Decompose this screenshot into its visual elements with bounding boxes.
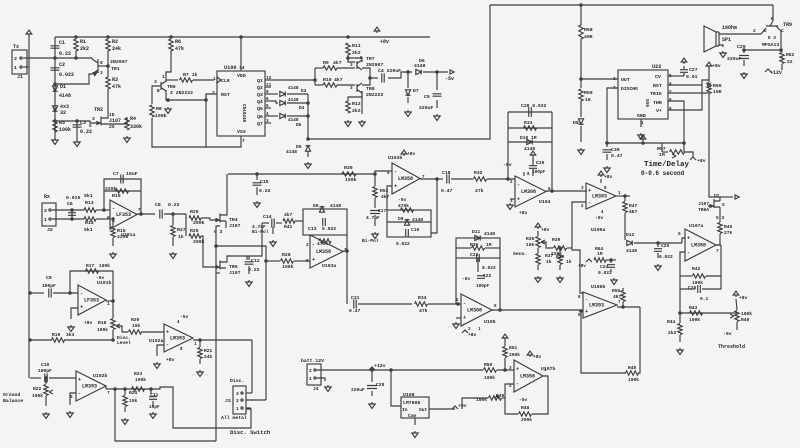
svg-text:10k: 10k <box>526 242 535 248</box>
svg-text:U22: U22 <box>652 64 661 70</box>
svg-text:1: 1 <box>107 302 110 307</box>
svg-text:-5v: -5v <box>96 275 105 281</box>
svg-text:1: 1 <box>213 76 216 82</box>
svg-text:R9: R9 <box>323 60 329 66</box>
svg-text:-5v: -5v <box>462 276 471 282</box>
svg-text:12: 12 <box>266 76 272 81</box>
svg-text:4148: 4148 <box>288 86 299 91</box>
svg-text:47k: 47k <box>175 46 184 52</box>
svg-text:R25: R25 <box>190 228 199 234</box>
svg-text:4148: 4148 <box>626 248 637 254</box>
svg-text:1: 1 <box>309 376 312 382</box>
svg-text:Level: Level <box>117 340 131 346</box>
svg-text:R35: R35 <box>470 242 479 248</box>
svg-text:2: 2 <box>44 208 47 214</box>
svg-text:U107a: U107a <box>689 223 704 229</box>
svg-text:MPSA13: MPSA13 <box>762 42 779 48</box>
svg-text:R42: R42 <box>692 266 701 272</box>
svg-text:3: 3 <box>92 116 95 122</box>
svg-text:U103a: U103a <box>322 263 337 269</box>
svg-text:4k7: 4k7 <box>333 60 342 66</box>
svg-text:4148: 4148 <box>59 93 71 99</box>
svg-text:6: 6 <box>266 97 269 102</box>
svg-text:16Ohm: 16Ohm <box>722 25 737 31</box>
svg-text:+: + <box>463 315 466 321</box>
svg-text:1M: 1M <box>659 152 665 158</box>
svg-text:1K: 1K <box>585 97 591 103</box>
svg-text:R3: R3 <box>112 77 118 83</box>
svg-text:1M: 1M <box>486 242 492 248</box>
svg-text:47k: 47k <box>419 308 428 314</box>
svg-text:220uF: 220uF <box>351 387 365 393</box>
svg-text:J2: J2 <box>47 227 53 233</box>
svg-text:LM393: LM393 <box>82 384 97 390</box>
svg-text:U106b: U106b <box>591 284 606 290</box>
svg-text:Q4: Q4 <box>257 99 263 105</box>
svg-text:-5v: -5v <box>723 331 732 337</box>
svg-text:R44: R44 <box>667 319 676 325</box>
svg-text:C6: C6 <box>67 201 73 207</box>
svg-text:D12: D12 <box>626 232 635 238</box>
svg-text:R18: R18 <box>98 320 107 326</box>
svg-text:+8v: +8v <box>407 151 416 157</box>
svg-text:R7 1k: R7 1k <box>183 72 198 78</box>
svg-text:R4: R4 <box>130 116 136 122</box>
svg-text:+12v: +12v <box>770 70 782 76</box>
svg-text:C16: C16 <box>411 227 420 233</box>
svg-text:C28: C28 <box>376 382 385 388</box>
svg-text:Q7: Q7 <box>257 121 263 127</box>
svg-text:100k: 100k <box>99 263 110 269</box>
svg-text:220k: 220k <box>117 234 129 240</box>
svg-text:9: 9 <box>266 90 269 95</box>
svg-text:J107: J107 <box>109 118 121 124</box>
svg-text:-5v: -5v <box>398 197 407 203</box>
svg-text:200k: 200k <box>509 352 520 358</box>
svg-text:R47: R47 <box>629 203 638 209</box>
svg-text:2: 2 <box>212 90 215 96</box>
svg-text:D4: D4 <box>299 106 305 111</box>
svg-text:4K7: 4K7 <box>629 209 638 215</box>
svg-text:TR1: TR1 <box>111 66 120 72</box>
svg-text:3: 3 <box>100 71 103 76</box>
svg-text:+8v: +8v <box>84 320 93 326</box>
svg-text:-: - <box>78 391 81 397</box>
svg-text:1: 1 <box>162 74 165 80</box>
svg-text:+: + <box>394 183 397 189</box>
svg-text:R57: R57 <box>657 146 666 152</box>
svg-text:1k: 1k <box>566 259 572 265</box>
svg-text:2: 2 <box>306 243 309 248</box>
svg-text:C14: C14 <box>263 214 272 220</box>
svg-text:0.22: 0.22 <box>80 129 92 135</box>
svg-text:+12v: +12v <box>374 363 386 369</box>
svg-text:+8v: +8v <box>166 357 175 363</box>
svg-text:3: 3 <box>154 79 157 85</box>
svg-text:2k2: 2k2 <box>352 108 361 114</box>
svg-text:S: S <box>722 202 725 208</box>
svg-text:-: - <box>80 291 83 297</box>
svg-text:C11: C11 <box>150 392 159 398</box>
svg-text:U104: U104 <box>539 199 551 205</box>
svg-text:100k: 100k <box>628 377 639 383</box>
svg-text:-5v: -5v <box>180 314 189 320</box>
svg-text:R27: R27 <box>177 227 186 233</box>
svg-text:R6: R6 <box>175 39 181 45</box>
svg-text:R40: R40 <box>628 365 637 371</box>
svg-text:5k1: 5k1 <box>84 193 93 199</box>
svg-text:R26: R26 <box>190 209 199 215</box>
svg-text:100k: 100k <box>32 393 43 399</box>
svg-text:3: 3 <box>266 119 269 124</box>
svg-text:Out: Out <box>419 407 428 413</box>
svg-text:1: 1 <box>44 217 47 223</box>
svg-text:TR5: TR5 <box>229 264 238 270</box>
svg-text:V+: V+ <box>656 108 662 114</box>
svg-text:R55: R55 <box>612 288 621 294</box>
svg-text:100K: 100K <box>689 317 700 323</box>
svg-text:CLK: CLK <box>221 78 230 84</box>
svg-text:R19: R19 <box>52 332 61 338</box>
svg-text:C24: C24 <box>600 264 609 270</box>
svg-text:+: + <box>166 329 169 335</box>
svg-text:24k: 24k <box>204 354 213 360</box>
svg-text:R2: R2 <box>112 39 118 45</box>
svg-text:C9: C9 <box>46 275 52 281</box>
svg-text:100k: 100k <box>345 177 357 183</box>
svg-text:Ground: Ground <box>3 392 20 398</box>
svg-text:U102a: U102a <box>149 338 164 344</box>
svg-text:4K7: 4K7 <box>613 294 622 300</box>
svg-text:R11: R11 <box>352 43 361 49</box>
svg-text:5k1: 5k1 <box>84 227 93 233</box>
svg-text:TR7: TR7 <box>366 56 375 62</box>
svg-text:-: - <box>166 342 169 348</box>
svg-text:+8v: +8v <box>697 158 706 164</box>
svg-text:2 2N2222: 2 2N2222 <box>170 90 193 96</box>
svg-text:LM393: LM393 <box>592 194 607 200</box>
svg-text:0.022: 0.022 <box>598 270 612 276</box>
svg-text:+: + <box>517 196 520 202</box>
svg-text:47k: 47k <box>112 84 121 90</box>
svg-text:R16: R16 <box>117 228 126 234</box>
svg-text:1k: 1k <box>178 234 184 240</box>
svg-text:2N2222: 2N2222 <box>366 92 383 98</box>
svg-text:100k: 100k <box>282 264 294 270</box>
svg-text:D9: D9 <box>313 203 319 209</box>
svg-text:C12: C12 <box>251 258 260 264</box>
svg-text:100k: 100k <box>97 327 108 333</box>
svg-text:D1: D1 <box>60 84 66 90</box>
svg-text:E 3: E 3 <box>768 36 776 41</box>
svg-text:LM358: LM358 <box>316 249 331 255</box>
svg-text:-: - <box>585 297 588 303</box>
svg-text:LM358: LM358 <box>398 176 413 182</box>
svg-text:R24: R24 <box>129 390 138 396</box>
svg-text:R1: R1 <box>80 39 86 45</box>
svg-text:TR6A: TR6A <box>698 207 709 213</box>
svg-text:2N2907: 2N2907 <box>366 62 383 68</box>
svg-text:0.47: 0.47 <box>441 188 452 194</box>
svg-text:LM358: LM358 <box>691 243 706 249</box>
svg-text:0.47: 0.47 <box>349 308 360 314</box>
svg-text:200k: 200k <box>521 417 532 423</box>
svg-text:22: 22 <box>787 59 793 65</box>
svg-text:24k: 24k <box>112 46 121 52</box>
svg-text:0.47: 0.47 <box>611 153 623 159</box>
svg-text:-: - <box>394 169 397 175</box>
svg-text:C30: C30 <box>611 147 620 153</box>
svg-text:U107b: U107b <box>541 366 556 372</box>
svg-text:3: 3 <box>350 63 353 68</box>
svg-text:-: - <box>112 206 115 212</box>
svg-text:5: 5 <box>678 232 681 237</box>
svg-text:4.7uF: 4.7uF <box>366 215 380 221</box>
svg-text:1M: 1M <box>597 251 603 257</box>
svg-text:0.022: 0.022 <box>59 72 74 78</box>
svg-text:TR8: TR8 <box>366 86 375 92</box>
svg-text:+: + <box>585 309 588 315</box>
svg-text:+: + <box>312 257 315 263</box>
svg-text:R8: R8 <box>156 106 162 112</box>
svg-text:1: 1 <box>236 406 239 412</box>
svg-text:J107: J107 <box>698 201 709 207</box>
svg-text:10k: 10k <box>132 323 141 329</box>
svg-text:D5: D5 <box>296 123 302 128</box>
svg-text:0.22: 0.22 <box>59 51 71 57</box>
svg-text:R43: R43 <box>689 305 698 311</box>
svg-text:40K: 40K <box>584 34 593 40</box>
svg-text:R56: R56 <box>713 83 722 89</box>
svg-text:7: 7 <box>138 208 141 213</box>
svg-text:+8v: +8v <box>533 354 542 360</box>
svg-text:C20 0.022: C20 0.022 <box>521 103 547 109</box>
svg-text:R13: R13 <box>85 200 94 206</box>
svg-text:RST: RST <box>221 92 230 98</box>
svg-text:R30: R30 <box>344 165 353 171</box>
svg-text:J107: J107 <box>229 270 241 276</box>
svg-text:batt.12V: batt.12V <box>301 358 324 364</box>
svg-text:100k: 100k <box>59 127 71 133</box>
svg-text:VSS: VSS <box>237 129 246 135</box>
svg-text:C4 220uF: C4 220uF <box>378 68 401 74</box>
svg-text:3: 3 <box>350 86 353 91</box>
svg-text:+8v: +8v <box>380 39 389 45</box>
svg-text:Disc. Switch: Disc. Switch <box>230 429 271 436</box>
svg-text:C17: C17 <box>378 208 387 214</box>
svg-text:D11: D11 <box>472 229 481 235</box>
svg-text:LF353: LF353 <box>84 298 99 304</box>
svg-text:C2: C2 <box>59 62 65 68</box>
svg-text:4k7: 4k7 <box>334 77 343 83</box>
svg-text:Q2: Q2 <box>257 85 263 91</box>
svg-text:C22: C22 <box>483 273 492 279</box>
svg-text:D10 1M: D10 1M <box>520 135 537 141</box>
svg-text:100pF: 100pF <box>38 368 52 374</box>
svg-text:4: 4 <box>266 112 269 117</box>
svg-text:In: In <box>402 407 408 413</box>
svg-text:11: 11 <box>266 83 272 88</box>
svg-text:C13: C13 <box>308 226 317 232</box>
svg-text:100k: 100k <box>741 311 752 317</box>
svg-text:GND: GND <box>637 113 646 119</box>
svg-text:R50: R50 <box>484 362 493 368</box>
svg-text:D8: D8 <box>573 120 579 126</box>
svg-text:-5v: -5v <box>503 162 512 168</box>
svg-text:7: 7 <box>107 391 110 396</box>
svg-text:0.015: 0.015 <box>66 195 81 201</box>
svg-text:C27: C27 <box>689 67 698 73</box>
svg-text:32: 32 <box>60 110 66 116</box>
svg-text:B: B <box>157 89 160 94</box>
svg-text:D3: D3 <box>301 89 307 94</box>
svg-text:4148: 4148 <box>286 149 297 155</box>
svg-text:R34: R34 <box>418 295 427 301</box>
svg-text:2S: 2S <box>109 124 115 130</box>
svg-text:C5: C5 <box>424 94 430 100</box>
svg-text:220uF: 220uF <box>419 105 434 111</box>
svg-text:C8: C8 <box>155 202 161 208</box>
svg-text:Rx: Rx <box>44 194 50 200</box>
svg-text:+: + <box>78 377 81 383</box>
svg-text:R45: R45 <box>724 224 733 230</box>
svg-text:100k: 100k <box>155 113 167 119</box>
svg-text:-: - <box>588 200 591 206</box>
svg-text:R22: R22 <box>33 386 42 392</box>
svg-text:+: + <box>516 366 519 372</box>
svg-text:Q1: Q1 <box>257 78 263 84</box>
svg-text:R17: R17 <box>86 263 95 269</box>
svg-text:R28: R28 <box>282 252 291 258</box>
svg-text:Q6: Q6 <box>257 114 263 120</box>
svg-text:-: - <box>463 300 466 306</box>
svg-text:0.022: 0.022 <box>322 226 336 232</box>
svg-text:LM308: LM308 <box>521 189 536 195</box>
svg-text:R46: R46 <box>741 317 750 323</box>
svg-text:+8v: +8v <box>604 174 613 180</box>
svg-text:OUT: OUT <box>621 77 630 83</box>
svg-text:47k: 47k <box>475 188 484 194</box>
svg-text:U100: U100 <box>224 65 236 71</box>
svg-text:2: 2 <box>753 29 756 34</box>
svg-text:C1: C1 <box>59 40 65 46</box>
svg-text:4k7: 4k7 <box>381 194 390 200</box>
svg-text:C21: C21 <box>351 295 360 301</box>
svg-text:-: - <box>687 250 690 256</box>
svg-text:R21: R21 <box>204 348 213 354</box>
svg-text:14: 14 <box>239 65 245 71</box>
svg-text:C25: C25 <box>661 243 670 249</box>
svg-text:Threshold: Threshold <box>718 344 745 350</box>
svg-text:100k: 100k <box>484 375 495 381</box>
svg-text:C3: C3 <box>80 120 86 126</box>
svg-text:G 3: G 3 <box>214 229 223 235</box>
svg-text:+8v: +8v <box>578 264 586 269</box>
svg-text:TR6: TR6 <box>167 84 176 90</box>
svg-text:R41: R41 <box>284 224 293 230</box>
svg-text:R10: R10 <box>323 77 332 83</box>
svg-text:C26: C26 <box>688 285 697 291</box>
svg-text:Sens.: Sens. <box>513 251 527 257</box>
svg-text:1k: 1k <box>546 259 552 265</box>
svg-text:0.022: 0.022 <box>482 265 496 271</box>
svg-text:Tx: Tx <box>13 44 19 50</box>
svg-text:Q5: Q5 <box>257 106 263 112</box>
svg-text:2: 2 <box>14 56 17 62</box>
svg-text:C29: C29 <box>737 44 746 50</box>
svg-text:+8v: +8v <box>519 210 528 216</box>
svg-text:+: + <box>80 305 83 311</box>
svg-text:J3: J3 <box>225 398 231 404</box>
svg-text:-5v: -5v <box>595 215 604 221</box>
svg-text:LF353: LF353 <box>116 212 131 218</box>
svg-text:+: + <box>687 235 690 241</box>
svg-text:+8v: +8v <box>712 63 721 69</box>
svg-text:R52: R52 <box>786 52 795 58</box>
svg-text:15k: 15k <box>129 398 138 404</box>
svg-text:0.1: 0.1 <box>700 296 709 302</box>
svg-text:15pF: 15pF <box>149 405 160 410</box>
svg-text:-5v: -5v <box>445 76 454 82</box>
svg-text:All metal: All metal <box>221 415 247 421</box>
svg-text:C10: C10 <box>41 362 50 368</box>
svg-text:+8v: +8v <box>739 295 748 301</box>
svg-text:Bi-Pol: Bi-Pol <box>362 238 379 244</box>
svg-text:C18: C18 <box>442 170 451 176</box>
svg-text:4k7: 4k7 <box>284 212 293 218</box>
svg-text:C15: C15 <box>260 179 269 185</box>
svg-text:R58: R58 <box>584 27 593 33</box>
svg-text:2k2: 2k2 <box>80 46 89 52</box>
svg-text:0.22: 0.22 <box>259 188 271 194</box>
svg-text:CV: CV <box>655 74 661 80</box>
svg-text:470k: 470k <box>398 203 409 209</box>
svg-text:LM393: LM393 <box>170 336 185 342</box>
svg-text:TRIG: TRIG <box>650 91 662 97</box>
svg-text:R20: R20 <box>131 317 140 323</box>
svg-text:Disc.: Disc. <box>230 378 244 384</box>
svg-text:0-0.6 second: 0-0.6 second <box>641 170 685 177</box>
svg-text:RST: RST <box>653 83 662 89</box>
svg-text:U106a: U106a <box>591 227 606 233</box>
svg-text:2: 2 <box>236 398 239 404</box>
svg-text:-: - <box>312 242 315 248</box>
svg-text:10K: 10K <box>713 89 722 95</box>
svg-text:C23: C23 <box>470 252 479 258</box>
svg-text:R38: R38 <box>556 254 565 260</box>
svg-text:THR: THR <box>653 100 662 106</box>
svg-text:LM393: LM393 <box>589 303 604 309</box>
svg-text:R32: R32 <box>474 170 483 176</box>
svg-text:U108: U108 <box>403 392 415 398</box>
svg-text:R33: R33 <box>524 120 533 126</box>
svg-text:+8v: +8v <box>468 332 477 338</box>
svg-text:DISCHG: DISCHG <box>621 86 638 92</box>
svg-text:U105: U105 <box>484 319 496 325</box>
svg-text:R51: R51 <box>509 345 518 351</box>
svg-text:3k3: 3k3 <box>66 332 75 338</box>
svg-text:3: 3 <box>236 391 239 397</box>
svg-text:LM308: LM308 <box>467 308 482 314</box>
svg-text:220uF: 220uF <box>727 56 742 62</box>
svg-text:D9: D9 <box>398 216 404 222</box>
svg-text:100k: 100k <box>135 377 146 383</box>
svg-text:TR2: TR2 <box>94 107 103 113</box>
svg-text:10uF: 10uF <box>126 171 138 177</box>
svg-text:4148: 4148 <box>414 63 426 69</box>
svg-text:555: 555 <box>644 99 650 107</box>
svg-text:C19: C19 <box>536 160 545 166</box>
